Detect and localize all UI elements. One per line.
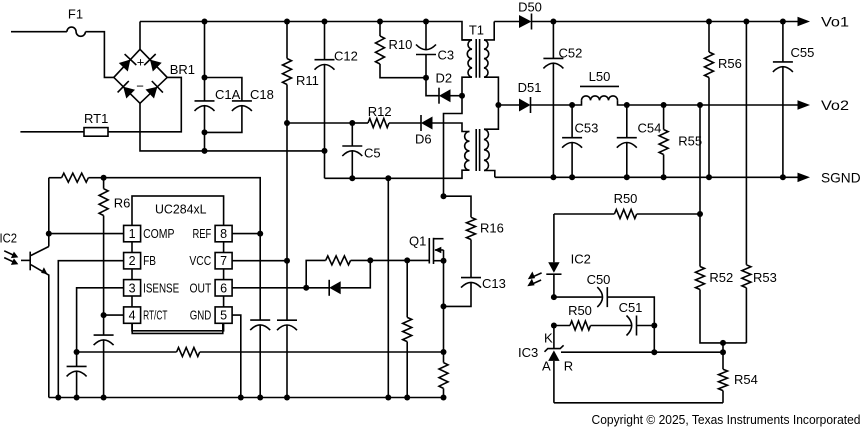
wire bridge plus to top rail bbox=[139, 22, 141, 50]
resistor sense divider bbox=[77, 348, 447, 357]
svg-text:R6: R6 bbox=[114, 196, 131, 211]
node Vo2 rail junctions bbox=[569, 102, 703, 108]
resistor feedback upper bbox=[49, 173, 107, 182]
capacitor C55 bbox=[773, 22, 814, 178]
svg-text:SGND: SGND bbox=[821, 169, 861, 185]
port Vo1 bbox=[798, 14, 850, 30]
svg-text:5: 5 bbox=[220, 309, 227, 323]
transformer T1 bias winding bbox=[465, 132, 470, 171]
svg-text:R16: R16 bbox=[480, 221, 504, 236]
wire ISENSE line bbox=[77, 288, 124, 352]
svg-text:Vo1: Vo1 bbox=[821, 14, 849, 30]
node Vo1 rail junctions bbox=[550, 19, 786, 25]
gate network diode bbox=[303, 260, 370, 295]
svg-text:D2: D2 bbox=[436, 71, 453, 86]
inductor L50 bbox=[572, 69, 797, 105]
resistor R6 bbox=[99, 178, 130, 315]
svg-text:GND: GND bbox=[190, 309, 212, 323]
svg-text:L50: L50 bbox=[589, 69, 611, 84]
resistor R55 bbox=[659, 105, 702, 177]
capacitor C50 bbox=[551, 272, 654, 326]
svg-text:C1A: C1A bbox=[215, 87, 241, 102]
capacitor C13 bbox=[441, 276, 506, 309]
wire primary return rail bbox=[325, 170, 470, 178]
svg-text:2: 2 bbox=[129, 254, 136, 268]
wire AC line input bbox=[11, 32, 114, 78]
wire primary ground rail bbox=[49, 397, 444, 399]
transformer T1 primary winding bbox=[444, 23, 484, 197]
pin 6 OUT bbox=[190, 280, 233, 296]
resistor R56 bbox=[705, 22, 742, 178]
capacitor C3 bbox=[416, 22, 454, 81]
wire pin4 pin5 link bbox=[132, 323, 223, 333]
svg-text:VCC: VCC bbox=[189, 254, 211, 268]
IC U1 UC284xL box bbox=[132, 196, 224, 331]
svg-text:RT1: RT1 bbox=[84, 111, 108, 126]
pin 1 COMP bbox=[124, 225, 175, 241]
capacitor C53 bbox=[562, 105, 598, 177]
diode D50 bbox=[494, 0, 797, 30]
capacitor C1A bbox=[195, 22, 241, 151]
capacitor REF bypass bbox=[250, 234, 270, 398]
svg-text:R: R bbox=[564, 359, 573, 374]
svg-text:Q1: Q1 bbox=[409, 234, 426, 249]
transistor Q1 bbox=[409, 234, 447, 265]
svg-text:C18: C18 bbox=[250, 87, 274, 102]
svg-text:C50: C50 bbox=[587, 272, 611, 287]
capacitor CT bbox=[94, 312, 114, 397]
thermistor RT1 bbox=[84, 111, 108, 136]
svg-text:R54: R54 bbox=[734, 372, 758, 387]
IC2 transistor light arrows bbox=[4, 251, 18, 265]
node SGND rail junctions bbox=[550, 174, 786, 180]
pin 3 ISENSE bbox=[124, 280, 180, 296]
svg-text:R12: R12 bbox=[368, 104, 392, 119]
pin 8 REF bbox=[193, 225, 233, 241]
capacitor C51 bbox=[591, 300, 658, 336]
wire GND pin line bbox=[232, 315, 241, 397]
port SGND bbox=[798, 169, 861, 185]
svg-text:R10: R10 bbox=[389, 37, 413, 52]
shunt regulator IC3 bbox=[518, 326, 573, 403]
svg-text:RT/CT: RT/CT bbox=[143, 309, 168, 323]
capacitor C52 bbox=[543, 22, 582, 178]
wire Q1 source bbox=[443, 261, 445, 363]
node ground rail junctions bbox=[55, 395, 410, 401]
pin 4 RT/CT bbox=[124, 307, 168, 323]
resistor R53 bbox=[742, 22, 777, 343]
wire ref feedback line bbox=[104, 178, 261, 234]
capacitor C18 bbox=[205, 78, 274, 133]
node R52 R53 junction bbox=[720, 340, 726, 352]
svg-text:COMP: COMP bbox=[143, 227, 174, 241]
svg-text:ISENSE: ISENSE bbox=[143, 281, 179, 295]
svg-text:C55: C55 bbox=[791, 45, 815, 60]
transformer T1 secondary winding 2 bbox=[484, 105, 498, 177]
transformer T1 secondary winding 1 bbox=[484, 22, 501, 109]
wire OUT pin line bbox=[232, 287, 329, 289]
svg-text:D50: D50 bbox=[518, 0, 542, 15]
svg-text:R11: R11 bbox=[296, 73, 319, 88]
resistor R12 bbox=[352, 104, 391, 128]
node Q1 drain junction bbox=[441, 193, 447, 199]
svg-text:Copyright © 2025, Texas Instru: Copyright © 2025, Texas Instruments Inco… bbox=[592, 412, 861, 427]
svg-text:C53: C53 bbox=[575, 121, 599, 136]
wire VCC pin line bbox=[232, 258, 290, 264]
svg-text:REF: REF bbox=[193, 227, 212, 241]
wire RTCT line bbox=[104, 314, 124, 316]
pin 7 VCC bbox=[189, 253, 232, 269]
IC2 LED light arrows bbox=[527, 272, 541, 287]
wire SGND rail bbox=[495, 176, 798, 178]
svg-text:−: − bbox=[136, 79, 144, 94]
resistor R54 bbox=[719, 352, 758, 403]
svg-text:C5: C5 bbox=[364, 146, 381, 161]
svg-text:C3: C3 bbox=[438, 48, 455, 63]
pin 2 FB bbox=[124, 253, 156, 269]
copyright text bbox=[592, 412, 861, 427]
svg-text:C52: C52 bbox=[559, 46, 583, 61]
svg-text:R53: R53 bbox=[753, 270, 777, 285]
svg-text:T1: T1 bbox=[469, 23, 484, 38]
svg-text:IC2: IC2 bbox=[571, 252, 591, 267]
capacitor C12 bbox=[315, 22, 358, 179]
svg-text:R50: R50 bbox=[614, 191, 638, 206]
optocoupler IC2 LED bbox=[546, 214, 591, 297]
capacitor C5 bbox=[342, 120, 380, 178]
wire COMP line bbox=[46, 231, 124, 237]
svg-text:8: 8 bbox=[220, 227, 227, 241]
capacitor VCC bypass bbox=[277, 261, 297, 398]
wire R11 to VCC node bbox=[284, 120, 290, 261]
resistor R50 upper bbox=[554, 191, 703, 219]
diode D51 bbox=[498, 80, 572, 113]
capacitor ISENSE filter bbox=[67, 349, 87, 398]
svg-text:4: 4 bbox=[129, 309, 136, 323]
wire return to gnd rail bbox=[387, 178, 389, 397]
svg-text:Vo2: Vo2 bbox=[821, 97, 849, 113]
diode D6 bbox=[389, 115, 470, 147]
bridge rectifier BR1 bbox=[114, 49, 195, 103]
optocoupler IC2 transistor bbox=[0, 178, 49, 398]
resistor gate pulldown bbox=[403, 260, 412, 397]
svg-text:BR1: BR1 bbox=[170, 62, 195, 77]
svg-text:1: 1 bbox=[129, 227, 136, 241]
fuse F1 bbox=[67, 7, 86, 37]
svg-text:F1: F1 bbox=[68, 7, 83, 22]
svg-text:6: 6 bbox=[220, 281, 227, 295]
svg-text:IC3: IC3 bbox=[518, 345, 538, 360]
svg-text:FB: FB bbox=[143, 254, 156, 268]
svg-text:R55: R55 bbox=[678, 134, 702, 149]
wire gate line bbox=[370, 257, 429, 263]
node top rail junctions bbox=[202, 19, 430, 25]
svg-text:C51: C51 bbox=[619, 300, 643, 315]
resistor R52 bbox=[696, 105, 747, 343]
resistor R11 bbox=[283, 22, 319, 124]
node return junctions bbox=[202, 148, 328, 154]
node return rail junctions bbox=[349, 175, 391, 181]
svg-text:C12: C12 bbox=[334, 49, 358, 64]
svg-text:C13: C13 bbox=[482, 276, 506, 291]
gate network resistor bbox=[306, 256, 373, 288]
svg-text:D6: D6 bbox=[415, 132, 432, 147]
wire REF pin line bbox=[232, 231, 263, 237]
wire VCC node line bbox=[287, 122, 352, 124]
svg-text:R56: R56 bbox=[718, 56, 742, 71]
capacitor C54 bbox=[617, 105, 662, 177]
transformer T1 core bbox=[476, 39, 479, 171]
wire RT1 to bridge bbox=[108, 77, 181, 131]
resistor R50 lower bbox=[551, 303, 592, 330]
wire AC neutral input bbox=[20, 131, 84, 133]
resistor R10 bbox=[376, 22, 427, 78]
svg-text:C54: C54 bbox=[638, 121, 662, 136]
svg-text:+: + bbox=[137, 55, 145, 70]
resistor current sense bbox=[439, 363, 448, 401]
wire FB line bbox=[58, 261, 123, 398]
svg-text:7: 7 bbox=[220, 254, 227, 268]
wire top HV rail bbox=[140, 22, 472, 40]
svg-text:A: A bbox=[542, 359, 551, 374]
wire IC3 anode return bbox=[554, 402, 723, 404]
svg-text:R50: R50 bbox=[568, 303, 592, 318]
svg-text:UC284xL: UC284xL bbox=[155, 202, 207, 217]
svg-text:D51: D51 bbox=[518, 80, 542, 95]
diode D2 bbox=[426, 71, 465, 104]
wire IC3 ref line bbox=[561, 349, 726, 355]
port Vo2 bbox=[798, 97, 850, 113]
wire C50 C51 junction to ref line bbox=[651, 326, 657, 356]
svg-text:K: K bbox=[544, 331, 553, 346]
svg-text:OUT: OUT bbox=[190, 281, 212, 295]
wire bridge minus return bbox=[140, 103, 325, 151]
svg-text:IC2: IC2 bbox=[0, 231, 17, 246]
svg-text:3: 3 bbox=[129, 281, 136, 295]
resistor R16 bbox=[444, 196, 504, 277]
pin 5 GND bbox=[190, 307, 232, 323]
svg-text:R52: R52 bbox=[709, 270, 733, 285]
